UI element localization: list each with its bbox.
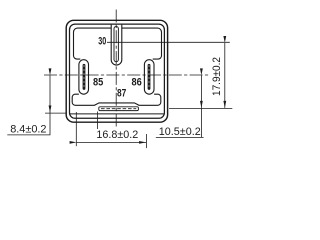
- svg-text:10.5±0.2: 10.5±0.2: [159, 126, 201, 138]
- pin 30 leader / 17.9 top extension line: [107, 41, 230, 43]
- 16.8 dim line with arrows: [77, 141, 147, 143]
- pin 85 slot dark bar: [83, 64, 86, 90]
- pin 86 stadium outline: [144, 60, 154, 94]
- 8.4 dim line with arrows: [49, 75, 51, 112]
- relay body inner outline: [70, 24, 165, 118]
- pin 85 stadium outline: [79, 60, 89, 94]
- 16.8 dim: boss-edge short extension line: [97, 112, 99, 130]
- pin 86 slot dash gaps: [148, 66, 150, 89]
- 17.9 dim line with arrows: [224, 43, 226, 108]
- svg-text:87: 87: [117, 88, 126, 100]
- svg-text:16.8±0.2: 16.8±0.2: [96, 129, 138, 141]
- pin 86 slot dark bar: [148, 64, 151, 90]
- relay body outer outline: [66, 20, 167, 122]
- svg-text:86: 86: [132, 77, 142, 89]
- svg-text:8.4±0.2: 8.4±0.2: [10, 123, 46, 135]
- svg-text:17.9±0.2: 17.9±0.2: [211, 57, 223, 96]
- 8.4 dim riser to text: [7, 113, 50, 135]
- 10.5 text underline: [156, 136, 204, 138]
- cavity bottom flange line: [70, 113, 164, 115]
- 10.5 dim riser to text: [200, 108, 202, 137]
- 16.8 dim: right extension line: [145, 134, 147, 148]
- horizontal centerline: [44, 74, 210, 76]
- 16.8 dim: left extension line: [75, 112, 77, 146]
- pin 87 slot dashed centerline: [101, 108, 136, 110]
- pin 87 slot rectangle: [99, 107, 139, 111]
- cavity outline (recess) with pin channels: [74, 25, 162, 66]
- 8.4 dim: bottom extension stub: [45, 112, 66, 114]
- vertical centerline: [115, 10, 117, 128]
- pin 30 inner slot: [114, 27, 118, 62]
- svg-text:30: 30: [98, 36, 106, 48]
- pin 85 slot dash gaps: [83, 66, 85, 89]
- 17.9 dim: bottom extension line: [169, 108, 232, 110]
- cavity bottom step outline left and 87 boss and step right: [72, 94, 161, 105]
- svg-text:85: 85: [93, 76, 103, 88]
- 10.5 dim line with arrows (vertical, right of body): [200, 75, 202, 108]
